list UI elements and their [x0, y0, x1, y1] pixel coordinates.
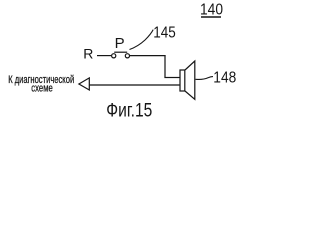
switch P right contact	[125, 54, 129, 58]
svg-text:148: 148	[213, 70, 236, 87]
svg-text:R: R	[83, 45, 93, 61]
switch label P	[115, 35, 125, 52]
node R label	[83, 45, 93, 61]
svg-text:схеме: схеме	[31, 83, 53, 95]
switch P left contact	[112, 54, 116, 58]
svg-text:P: P	[115, 35, 125, 52]
leader line to 148	[196, 77, 214, 80]
wire bottom line to speaker	[89, 84, 180, 86]
arrow to diagnostic circuit	[79, 78, 89, 90]
svg-text:145: 145	[153, 25, 176, 42]
wire vertical down	[164, 55, 166, 78]
svg-text:140: 140	[200, 2, 223, 19]
figure number 140	[200, 2, 223, 19]
label K diagnostic circuit line 1	[8, 74, 74, 86]
label K diagnostic circuit line 2	[31, 83, 53, 95]
speaker LS driver body	[180, 70, 185, 91]
leader line to 145	[130, 30, 154, 50]
wire R to switch	[97, 55, 111, 57]
svg-text:Фиг.15: Фиг.15	[106, 101, 152, 121]
reference label 145	[153, 25, 176, 42]
caption Fig.15	[106, 101, 152, 122]
reference label 148	[213, 70, 236, 87]
wire switch to corner	[130, 55, 166, 57]
switch P blade	[114, 51, 127, 53]
wire corner to speaker top terminal	[164, 77, 180, 79]
speaker LS cone	[185, 61, 195, 99]
